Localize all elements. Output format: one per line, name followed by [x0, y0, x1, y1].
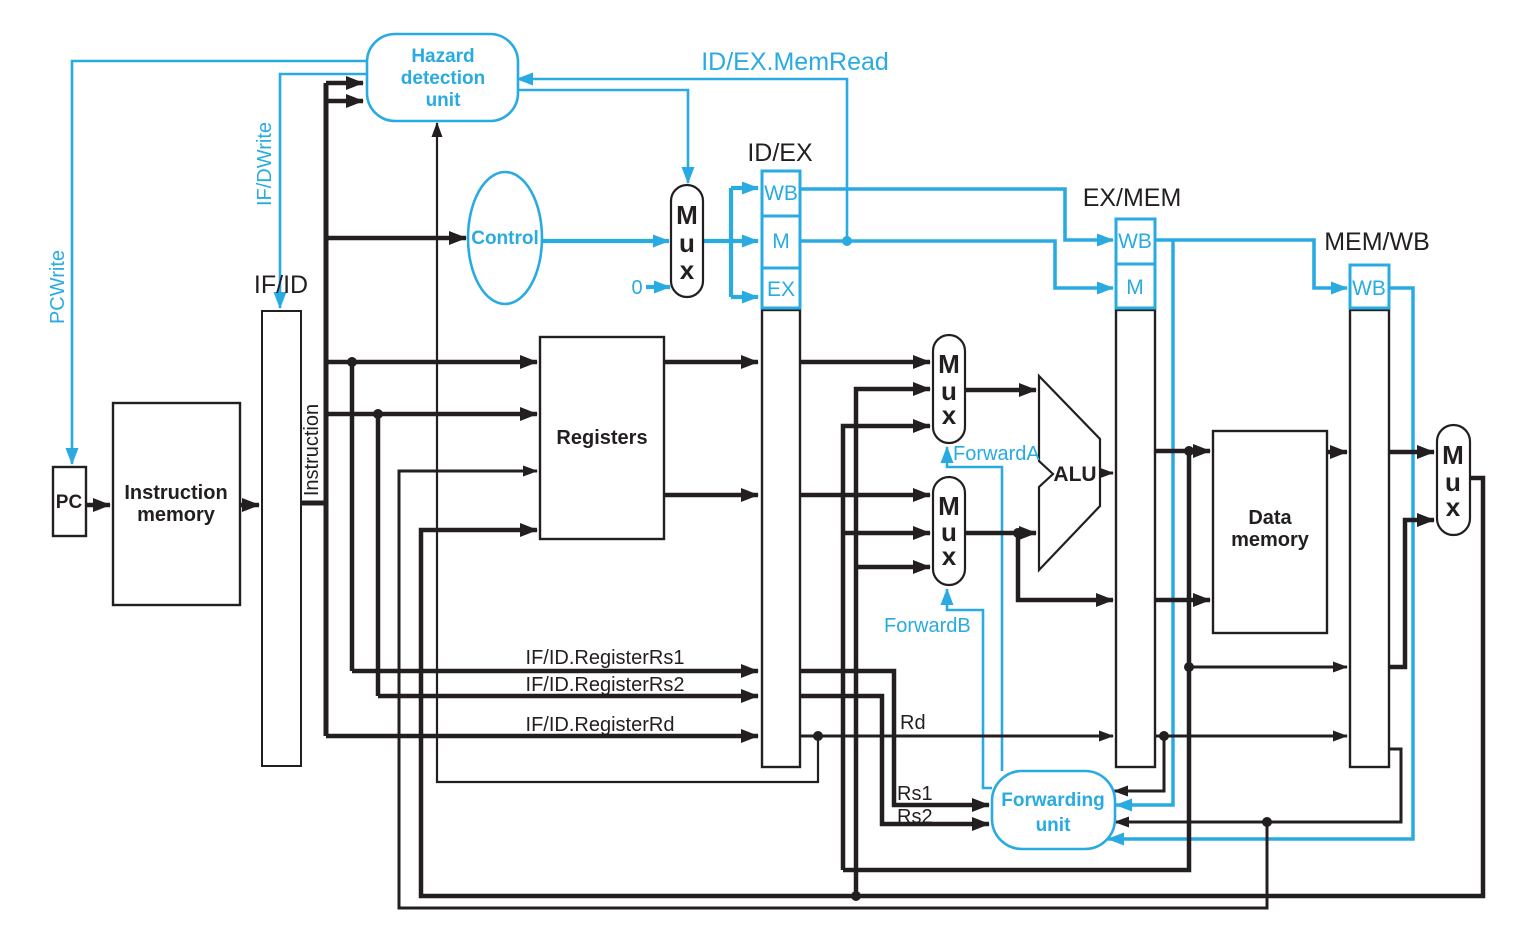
svg-text:Rd: Rd: [900, 712, 926, 734]
svg-text:x: x: [680, 255, 695, 285]
svg-text:ID/EX: ID/EX: [747, 139, 813, 167]
svg-text:Registers: Registers: [556, 427, 647, 449]
svg-text:EX/MEM: EX/MEM: [1083, 184, 1182, 212]
svg-text:u: u: [679, 228, 695, 258]
svg-text:detection: detection: [401, 68, 485, 89]
svg-text:M: M: [676, 200, 698, 230]
svg-text:ForwardA: ForwardA: [953, 443, 1040, 465]
svg-text:MEM/WB: MEM/WB: [1324, 228, 1430, 256]
svg-text:EX: EX: [767, 278, 795, 301]
svg-text:IF/DWrite: IF/DWrite: [254, 122, 276, 206]
svg-text:Data: Data: [1248, 507, 1292, 529]
svg-text:M: M: [772, 230, 790, 253]
svg-text:0: 0: [631, 277, 642, 299]
svg-text:IF/ID.RegisterRs1: IF/ID.RegisterRs1: [526, 647, 685, 669]
svg-text:memory: memory: [1231, 529, 1310, 551]
svg-text:x: x: [942, 400, 957, 430]
svg-text:ALU: ALU: [1053, 463, 1096, 486]
svg-text:IF/ID.RegisterRs2: IF/ID.RegisterRs2: [526, 674, 685, 696]
svg-text:PC: PC: [56, 492, 83, 513]
svg-text:ForwardB: ForwardB: [884, 615, 971, 637]
svg-text:Rs1: Rs1: [897, 783, 933, 805]
svg-text:PCWrite: PCWrite: [47, 250, 69, 324]
svg-text:WB: WB: [1352, 277, 1386, 300]
svg-text:unit: unit: [1036, 815, 1071, 836]
svg-text:IF/ID: IF/ID: [254, 271, 308, 299]
svg-text:Instruction: Instruction: [301, 404, 323, 496]
svg-text:x: x: [1446, 492, 1461, 522]
svg-text:WB: WB: [764, 182, 798, 205]
svg-text:M: M: [1126, 276, 1144, 299]
svg-text:Forwarding: Forwarding: [1001, 790, 1104, 811]
svg-text:Instruction: Instruction: [124, 482, 227, 504]
svg-text:memory: memory: [137, 504, 216, 526]
svg-text:Rs2: Rs2: [897, 806, 933, 828]
svg-text:WB: WB: [1118, 230, 1152, 253]
svg-text:M: M: [938, 349, 960, 379]
svg-text:unit: unit: [426, 90, 461, 111]
svg-text:Control: Control: [471, 228, 539, 249]
svg-text:Hazard: Hazard: [411, 46, 474, 67]
svg-text:ID/EX.MemRead: ID/EX.MemRead: [701, 48, 889, 76]
svg-text:IF/ID.RegisterRd: IF/ID.RegisterRd: [526, 714, 675, 736]
svg-text:x: x: [942, 541, 957, 571]
svg-text:M: M: [1442, 440, 1464, 470]
